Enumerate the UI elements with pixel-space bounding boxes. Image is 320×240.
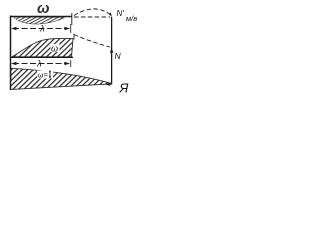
- svg-text:N′: N′: [117, 9, 125, 18]
- svg-text:N: N: [115, 51, 122, 61]
- svg-text:ω=: ω=: [38, 71, 49, 80]
- svg-text:м/в: м/в: [126, 14, 137, 23]
- svg-text:ω: ω: [37, 0, 50, 17]
- svg-text:Я: Я: [119, 81, 129, 96]
- svg-text:λ: λ: [39, 24, 45, 35]
- svg-text:λ: λ: [36, 59, 42, 70]
- svg-text:ω: ω: [51, 44, 58, 54]
